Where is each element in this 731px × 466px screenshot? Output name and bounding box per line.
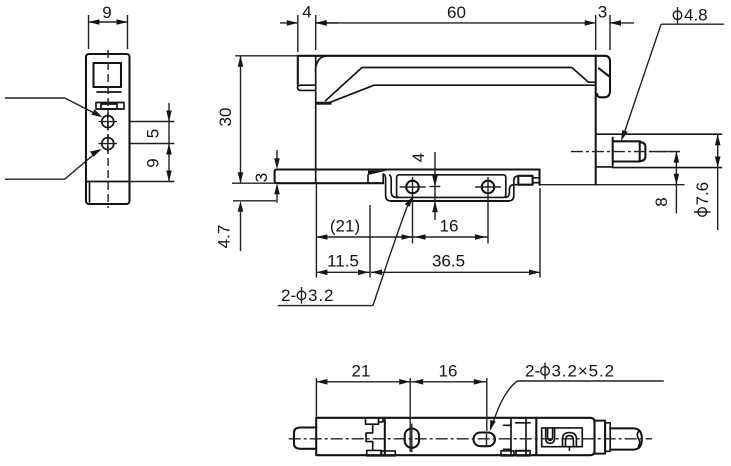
- mounting surface extension line: [540, 184, 685, 186]
- dimension 16 (bottom view): [410, 362, 487, 385]
- double U feature: [546, 428, 555, 443]
- bracket hole 1: [400, 181, 426, 194]
- leader line to hole 1: [5, 98, 103, 117]
- left view divider line: [86, 181, 130, 183]
- big end block: [536, 418, 594, 455]
- dimension 3 (bracket thickness): [252, 150, 280, 203]
- bracket wall bottom outer: [391, 200, 508, 202]
- bottom view slot hole 2: [474, 433, 496, 447]
- bracket left end: [275, 170, 384, 184]
- svg-text:2-: 2-: [525, 362, 540, 381]
- bracket step block (left): [368, 171, 387, 184]
- svg-text:3.2×5.2: 3.2×5.2: [552, 362, 616, 381]
- label 2-phi3.2 with leader to hole 1: [278, 196, 414, 305]
- lower diagonal D2: [329, 85, 374, 103]
- bottom view oblong hole 1: [405, 424, 419, 453]
- right tab stub lines: [533, 178, 540, 183]
- svg-text:2-: 2-: [281, 286, 296, 305]
- extension line at Z-bend: [369, 205, 371, 278]
- bracket top edge: [277, 168, 540, 170]
- svg-text:30: 30: [216, 108, 235, 127]
- dimension 16 (main view): [413, 217, 489, 240]
- svg-text:8: 8: [652, 197, 671, 206]
- svg-text:16: 16: [440, 217, 459, 236]
- leader line to hole 2: [5, 149, 102, 179]
- dimension 30: [216, 56, 299, 183]
- line C (blade bottom): [374, 84, 595, 86]
- dimension 4 (hole offset): [409, 152, 440, 220]
- svg-text:16: 16: [439, 362, 458, 381]
- bottom view centerline: [289, 438, 652, 440]
- svg-text:3.2: 3.2: [308, 286, 334, 305]
- body front face vertical line: [315, 56, 317, 183]
- extension line slot up: [486, 378, 488, 431]
- hook inner diagonal tick: [599, 68, 609, 76]
- dimension (21): [316, 217, 412, 240]
- extension line body left up: [315, 378, 317, 418]
- castle top rects: [366, 418, 383, 424]
- dimension 36.5: [371, 252, 540, 276]
- left view tab rectangles: [96, 103, 124, 110]
- leader and label phi 4.8: [621, 6, 724, 142]
- svg-text:4.8: 4.8: [684, 6, 708, 25]
- dimension 9 (top of left view): [89, 3, 128, 49]
- arm left tab vertical: [297, 56, 299, 85]
- collar: [595, 421, 606, 454]
- connector block top edge: [596, 133, 722, 135]
- castle left zigzag: [366, 424, 373, 450]
- bottom view body outline: [316, 418, 536, 455]
- extension line from front face down: [315, 183, 317, 277]
- svg-text:9: 9: [144, 158, 163, 167]
- cable boot: [610, 428, 642, 449]
- cable bushing: [613, 138, 646, 166]
- blade left corner arc: [316, 56, 327, 72]
- svg-text:(21): (21): [330, 217, 360, 236]
- mid verticals and notches: [501, 418, 536, 456]
- svg-text:4.7: 4.7: [215, 225, 234, 249]
- extension line from hole 1 down: [412, 177, 414, 244]
- dimension 21 (bottom view): [316, 362, 410, 385]
- left view body outline: [86, 54, 130, 204]
- extension line at bracket right end: [539, 188, 541, 278]
- left view hole 1: [99, 113, 118, 131]
- left view window square: [94, 63, 122, 92]
- svg-text:60: 60: [447, 3, 466, 22]
- svg-text:3: 3: [598, 3, 607, 22]
- svg-text:7.6: 7.6: [693, 182, 712, 206]
- connector block bottom edge: [597, 166, 722, 169]
- extension lines from holes to the right: [130, 121, 175, 123]
- svg-text:9: 9: [102, 3, 111, 22]
- svg-text:4: 4: [302, 3, 311, 22]
- left view hole 2: [99, 135, 118, 153]
- arm left foot: [298, 85, 316, 90]
- inner rect of end block: [542, 428, 583, 447]
- extension line hole1 up: [409, 378, 411, 452]
- label 2-phi3.2x5.2 with leader to slot: [490, 362, 664, 432]
- bracket right edge: [538, 170, 540, 185]
- arm top edge and right hook: [298, 56, 610, 98]
- dimension 3 (top right): [598, 3, 634, 51]
- left view vertical dashed centerline: [107, 50, 109, 208]
- dimension 9 (left view right side): [144, 144, 172, 182]
- castle bottom tabs: [367, 450, 396, 455]
- bracket hole 2: [475, 181, 501, 194]
- dimension 4 (top): [280, 3, 338, 53]
- right Z-bend curves: [508, 176, 519, 201]
- dimension 60: [316, 3, 596, 50]
- svg-text:4: 4: [409, 153, 428, 162]
- inner line B with left diagonal: [326, 68, 596, 101]
- svg-text:36.5: 36.5: [432, 252, 465, 271]
- body back face vertical: [595, 56, 597, 185]
- dimension 5 (left view): [144, 103, 172, 182]
- thick bar under front nose: [316, 102, 332, 105]
- svg-text:11.5: 11.5: [327, 252, 359, 271]
- double arch feature: [563, 433, 577, 451]
- svg-text:3: 3: [252, 173, 271, 182]
- left nose: [294, 428, 316, 449]
- dimension 4.7: [215, 201, 277, 251]
- bracket wall inner outline: [397, 175, 506, 198]
- dimension 11.5: [316, 252, 370, 276]
- left Z-bend curves: [383, 174, 391, 201]
- extension line from hole 2 down: [487, 177, 489, 244]
- dimension phi 7.6: [693, 134, 721, 230]
- svg-text:21: 21: [352, 362, 371, 381]
- collar lip: [605, 423, 610, 452]
- connector centerline (dash-dot): [571, 151, 680, 153]
- bracket right tab rect: [518, 176, 532, 185]
- dimension 8: [650, 152, 679, 214]
- svg-text:5: 5: [144, 129, 163, 138]
- castle thick vertical: [384, 418, 386, 455]
- left view inner vertical at bottom: [89, 182, 91, 203]
